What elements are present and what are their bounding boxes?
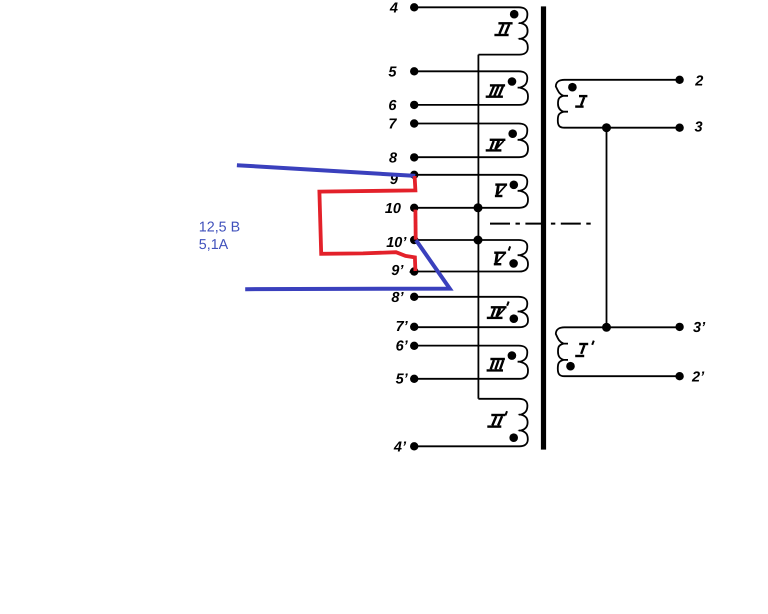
label V' (494, 246, 510, 264)
svg-text:6’: 6’ (396, 339, 409, 355)
svg-text:10: 10 (385, 201, 401, 217)
winding II (414, 7, 528, 54)
svg-text:8: 8 (389, 150, 398, 166)
label III (486, 85, 505, 96)
polarity dot winding II (510, 10, 519, 19)
terminal 6' (410, 342, 418, 350)
polarity dot winding V' (509, 259, 518, 268)
annotation blue lead to terminal 10' (245, 240, 450, 289)
terminal 7' (410, 323, 418, 331)
winding V' (414, 240, 528, 272)
polarity dot winding II' (509, 433, 518, 442)
svg-text:5’: 5’ (396, 372, 409, 388)
terminal 9 (410, 171, 418, 179)
polarity dot winding IV' (510, 314, 519, 323)
terminal 3 (675, 124, 683, 132)
label I (575, 96, 587, 107)
winding I (556, 80, 680, 128)
terminal 5' (410, 375, 418, 383)
terminal 8' (410, 293, 418, 301)
label II' (487, 411, 507, 426)
terminal 5 (410, 67, 418, 75)
svg-text:4’: 4’ (393, 440, 407, 456)
svg-text:8’: 8’ (391, 290, 404, 306)
label II (494, 23, 512, 35)
label III' (487, 359, 505, 370)
svg-text:7’: 7’ (396, 319, 409, 335)
winding V (414, 175, 528, 208)
label I' (575, 341, 594, 356)
polarity dot winding I (568, 83, 577, 92)
core (magnetic core bar) (541, 6, 546, 449)
winding IV (414, 124, 528, 158)
svg-text:7: 7 (388, 117, 397, 133)
winding II' (414, 399, 528, 447)
svg-text:9’: 9’ (391, 263, 404, 279)
terminal 10' (410, 236, 418, 244)
terminal 7 (410, 119, 418, 127)
stray mark near terminal 9' (410, 270, 412, 273)
svg-text:2: 2 (694, 73, 703, 89)
polarity dot winding V (510, 181, 519, 190)
winding III (414, 71, 528, 105)
polarity dot winding III (508, 77, 517, 86)
label IV (486, 140, 506, 151)
centerline (dash-dot symmetry axis) (490, 223, 594, 225)
svg-text:5: 5 (388, 64, 397, 80)
svg-text:10’: 10’ (386, 235, 407, 251)
terminal 2' (675, 372, 683, 380)
polarity dot winding III' (508, 351, 517, 360)
annotation blue lead to terminal 9 (237, 165, 415, 176)
wire (link between terminal 3 and 3' nets) (606, 128, 608, 328)
junction node at wire 10 (474, 203, 483, 212)
junction node on wire 3' (602, 323, 611, 332)
terminal 4 (410, 3, 418, 11)
terminal 10 (410, 204, 418, 212)
polarity dot winding I' (566, 362, 575, 371)
terminal 3' (675, 323, 683, 331)
svg-text:4: 4 (389, 1, 398, 17)
terminal 6 (410, 101, 418, 109)
svg-text:6: 6 (388, 98, 397, 114)
label V (495, 185, 507, 196)
svg-text:5,1А: 5,1А (199, 237, 229, 253)
terminal 9' (410, 267, 418, 275)
annotation red loop around windings V and V' (wire 9 to 9') (319, 176, 415, 271)
wire (series bus from winding II bottom to winding II' top) (477, 55, 479, 399)
svg-text:3: 3 (695, 120, 703, 136)
terminal 4' (410, 442, 418, 450)
svg-text:2’: 2’ (691, 369, 705, 385)
winding I' (556, 327, 680, 376)
junction node on wire 3 (602, 123, 611, 132)
svg-text:3’: 3’ (693, 320, 706, 336)
winding IV' (414, 297, 528, 327)
label IV' (487, 302, 509, 318)
terminal 2 (675, 76, 683, 84)
annotation red link wire 10 to 10' (413, 210, 417, 240)
svg-text:12,5 В: 12,5 В (199, 220, 240, 236)
polarity dot winding IV (508, 129, 517, 138)
winding III' (414, 346, 528, 379)
terminal 8 (410, 153, 418, 161)
junction node at wire 10' (474, 236, 483, 245)
